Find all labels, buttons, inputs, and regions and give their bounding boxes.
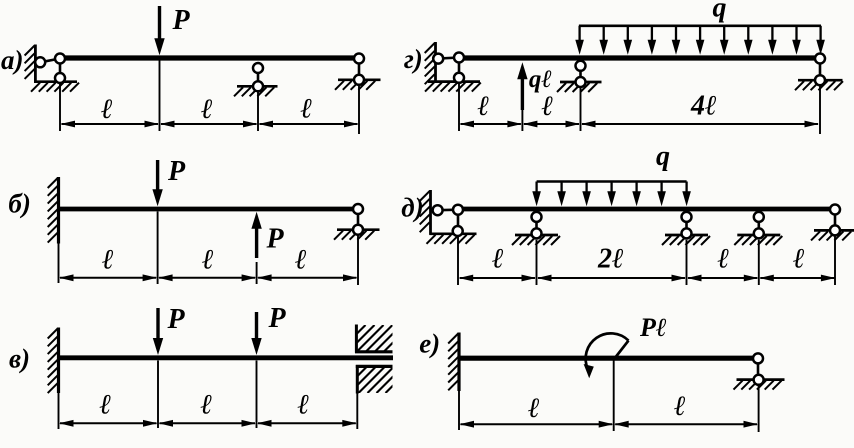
extension under ql (g) [521, 108, 523, 131]
roller support d-2 [662, 212, 710, 285]
svg-text:P: P [265, 224, 284, 255]
pin circles a-left [35, 54, 65, 84]
label P1 (v) [166, 304, 185, 335]
svg-text:P: P [166, 304, 185, 335]
dimension spans l,l,4l (g) [460, 121, 820, 128]
extension line d-left [457, 236, 459, 285]
pinned support d-left: wall and ground [420, 190, 477, 244]
dimension spans l,l,l (v) [59, 420, 357, 427]
svg-text:ℓ: ℓ [717, 244, 730, 275]
roller support g-right [795, 54, 843, 135]
beam b [59, 207, 359, 212]
roller support a-middle [234, 62, 278, 131]
fixed wall e-left [448, 333, 459, 431]
label d) [401, 193, 423, 223]
svg-text:е): е) [419, 329, 440, 359]
label q (d) [656, 141, 670, 172]
roller support a-right [335, 54, 381, 135]
extensions under P1,P2 (v) [158, 361, 257, 429]
distributed load q (g) [575, 26, 825, 55]
beam d [455, 207, 835, 212]
distributed load q (d) [532, 182, 691, 207]
svg-text:ℓ: ℓ [792, 244, 805, 275]
roller support d-right [811, 205, 854, 286]
extension mid (e) [613, 361, 615, 432]
svg-text:ℓ: ℓ [297, 390, 310, 421]
force P up (b) [251, 212, 261, 258]
beam e [459, 356, 758, 361]
force P down (b) [152, 160, 162, 206]
svg-text:ℓ: ℓ [101, 245, 114, 276]
svg-text:ℓ: ℓ [673, 391, 686, 422]
label Pl (e) [639, 313, 667, 342]
svg-text:ℓ: ℓ [99, 390, 112, 421]
extension line a-left [59, 84, 61, 131]
beam v [59, 355, 394, 360]
svg-text:P: P [267, 303, 286, 334]
svg-text:2ℓ: 2ℓ [597, 244, 624, 275]
beam a [57, 55, 359, 60]
svg-text:ℓ: ℓ [294, 245, 307, 276]
svg-text:ℓ: ℓ [100, 94, 113, 125]
svg-text:Pℓ: Pℓ [639, 313, 667, 342]
moment Pl arc (e) [584, 333, 629, 378]
dimension spans l,l (e) [460, 421, 759, 428]
force P1 (v) [153, 308, 163, 355]
label P down (b) [167, 156, 186, 187]
svg-text:q: q [713, 0, 727, 24]
pin circles d-left [433, 205, 463, 236]
label ql (g) [529, 66, 552, 93]
label P2 (v) [267, 303, 286, 334]
force P2 (v) [251, 312, 261, 355]
force P (a) [154, 6, 164, 55]
label v) [9, 344, 30, 374]
label a) [1, 45, 24, 75]
svg-text:ℓ: ℓ [200, 94, 213, 125]
svg-text:P: P [167, 156, 186, 187]
svg-text:qℓ: qℓ [529, 66, 552, 93]
label q (g) [713, 0, 727, 24]
svg-text:q: q [656, 141, 670, 172]
pinned support a-left: wall and ground [25, 45, 79, 92]
svg-text:ℓ: ℓ [300, 94, 313, 125]
extension line g-left [458, 84, 460, 131]
sliding support v-right lower block [332, 365, 412, 429]
svg-text:ℓ: ℓ [527, 393, 540, 424]
label b) [8, 189, 30, 219]
roller support g-middle [557, 61, 602, 131]
svg-text:ℓ: ℓ [491, 244, 504, 275]
dimension spans l,l,l (b) [59, 274, 358, 281]
svg-text:4ℓ: 4ℓ [690, 91, 717, 122]
dimension labels l,l,l (b) [101, 245, 307, 276]
dimension labels l,l,l (v) [99, 390, 310, 421]
svg-text:ℓ: ℓ [477, 91, 490, 122]
svg-text:г): г) [404, 44, 423, 74]
dimension labels l,2l,l,l (d) [491, 244, 805, 275]
roller support d-1 [512, 212, 560, 285]
fixed wall v-left [48, 328, 59, 430]
roller support d-3 [734, 212, 782, 285]
label g) [404, 44, 423, 74]
dimension labels l,l,l (a) [100, 94, 312, 126]
beam g [456, 55, 821, 60]
label P up (b) [265, 224, 284, 255]
pin circles g-left [433, 53, 464, 83]
extension under P-up (b) [256, 262, 258, 284]
svg-text:б): б) [8, 189, 30, 219]
pinned support g-left: wall and ground [425, 42, 481, 92]
svg-text:ℓ: ℓ [201, 245, 214, 276]
svg-text:ℓ: ℓ [541, 91, 554, 122]
label e) [419, 329, 440, 359]
label P (a) [171, 5, 190, 36]
dimension labels l,l,4l (g) [477, 91, 717, 123]
sliding support v-right upper block [330, 325, 420, 353]
roller support e-right [734, 353, 785, 432]
extension under P (b) [157, 212, 159, 285]
dimension labels l,l (e) [527, 391, 686, 424]
dimension spans l,2l,l,l (d) [459, 275, 836, 282]
force ql up (g) [517, 62, 527, 110]
fixed wall b-left [48, 177, 59, 283]
svg-text:P: P [171, 5, 190, 36]
svg-text:в): в) [9, 344, 30, 374]
svg-text:ℓ: ℓ [200, 390, 213, 421]
svg-text:а): а) [1, 45, 24, 75]
extension line under P (a) [159, 61, 161, 132]
roller support b-right [334, 204, 380, 285]
dimension spans l,l,l (a) [61, 121, 359, 128]
